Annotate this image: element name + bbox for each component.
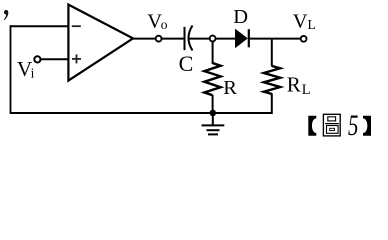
svg-text:5: 5 (348, 110, 358, 142)
wire: Vi terminal to + input (41, 58, 68, 60)
figure caption: left lenticular bracket (308, 116, 316, 136)
terminal VL (301, 36, 307, 42)
wire: feedback left vertical segment (10, 25, 12, 114)
terminal Vo (156, 36, 162, 42)
op-amp plus sign (72, 58, 81, 60)
wire: RL to bottom rail (271, 94, 273, 115)
svg-text:L: L (308, 17, 316, 32)
svg-text:i: i (31, 65, 35, 80)
op-amp minus sign (72, 25, 81, 27)
wire: capacitor to node (190, 38, 210, 40)
diode D (236, 30, 248, 48)
svg-text:o: o (161, 17, 168, 32)
capacitor C left plate (184, 27, 186, 50)
capacitor C right plate (curved) (189, 26, 193, 51)
wire: R to ground rail (212, 95, 214, 113)
svg-text:C: C (179, 51, 194, 76)
svg-text:L: L (302, 82, 311, 98)
svg-text:D: D (233, 6, 248, 28)
wire: diode to VL terminal (through RL tap) (249, 38, 301, 40)
wire: node down to resistor R (212, 41, 214, 64)
figure caption: right lenticular bracket (363, 116, 371, 136)
resistor R (204, 63, 220, 95)
wire: op-amp output to Vo (132, 38, 155, 40)
wire: node to diode (216, 38, 236, 40)
junction dot (ground node) (210, 110, 217, 117)
ground symbol (202, 113, 225, 134)
wire: Vo to capacitor (162, 38, 185, 40)
wire: RL tap down from output wire (271, 39, 273, 67)
svg-text:V: V (293, 11, 308, 33)
wire: bottom ground rail (11, 112, 272, 114)
figure caption: glyph 圖 (323, 114, 340, 136)
terminal Vi (34, 56, 40, 62)
wire: feedback top segment (minus input to left) (11, 25, 69, 27)
svg-text:R: R (287, 72, 301, 96)
resistor RL (264, 66, 280, 94)
stray comma mark (4, 10, 9, 20)
node (C / D / R junction circle) (210, 36, 216, 42)
op-amp U1 (68, 5, 133, 81)
svg-text:R: R (223, 77, 237, 99)
